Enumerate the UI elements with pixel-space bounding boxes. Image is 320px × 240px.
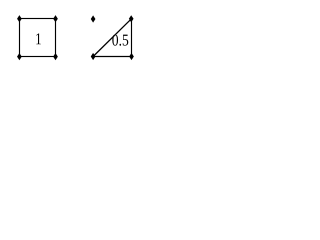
triangle vertex marker bottom-right (129, 53, 134, 60)
triangle vertex marker bottom-left (91, 53, 96, 60)
unit square outline (20, 19, 56, 57)
area label "1" (36, 33, 41, 44)
triangle (right triangle outline) (93, 19, 131, 57)
square vertex marker bottom-right (53, 53, 58, 60)
square vertex marker top-left (17, 15, 22, 22)
area label "0.5" (112, 34, 128, 45)
isolated point marker (fourth corner) (91, 15, 96, 22)
square vertex marker bottom-left (17, 53, 22, 60)
square vertex marker top-right (53, 15, 58, 22)
background (0, 0, 147, 76)
hypotenuse (93, 19, 131, 57)
triangle vertex marker top-right (129, 15, 134, 22)
